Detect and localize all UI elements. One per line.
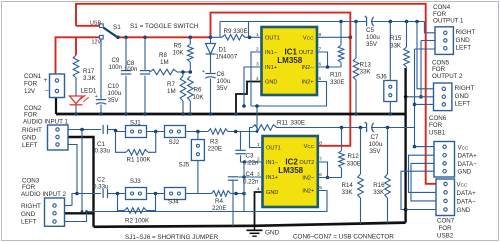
svg-text:0.22n: 0.22n <box>243 159 259 166</box>
svg-text:LEFT: LEFT <box>22 142 38 149</box>
svg-text:33K: 33K <box>390 42 402 49</box>
svg-text:0.22n: 0.22n <box>243 178 259 185</box>
svg-text:VCC: VCC <box>457 182 468 189</box>
svg-text:R11: R11 <box>277 119 288 126</box>
svg-text:R1 100K: R1 100K <box>127 157 152 164</box>
svg-text:USB2: USB2 <box>437 232 454 239</box>
svg-text:4: 4 <box>257 187 260 193</box>
svg-text:100u: 100u <box>108 90 122 97</box>
svg-text:GND: GND <box>22 135 37 142</box>
svg-text:100u: 100u <box>369 141 383 148</box>
svg-text:CON1: CON1 <box>24 73 42 80</box>
svg-text:VCC: VCC <box>458 144 469 151</box>
svg-text:8: 8 <box>319 140 322 146</box>
svg-text:LEFT: LEFT <box>455 101 471 108</box>
svg-text:R7: R7 <box>167 81 175 88</box>
svg-text:RIGHT: RIGHT <box>21 203 41 210</box>
svg-text:SJ2: SJ2 <box>169 139 180 146</box>
svg-text:FOR: FOR <box>24 81 38 88</box>
svg-text:3.3K: 3.3K <box>83 75 97 82</box>
svg-text:OUTPUT 1: OUTPUT 1 <box>433 17 464 24</box>
svg-text:1M: 1M <box>160 59 169 66</box>
svg-text:GND: GND <box>458 169 472 176</box>
svg-text:OUT1: OUT1 <box>265 36 280 42</box>
svg-text:S1 = TOGGLE SWITCH: S1 = TOGGLE SWITCH <box>130 23 199 30</box>
svg-text:OUTPUT 2: OUTPUT 2 <box>432 73 463 80</box>
svg-text:+: + <box>95 94 98 100</box>
svg-text:LM358: LM358 <box>278 166 303 175</box>
svg-text:SJ4: SJ4 <box>168 199 179 206</box>
svg-text:1M: 1M <box>167 88 176 95</box>
svg-text:DATA+: DATA+ <box>457 190 477 197</box>
svg-text:GND: GND <box>265 230 280 237</box>
svg-text:USB: USB <box>90 20 101 26</box>
svg-text:GND: GND <box>457 207 471 214</box>
svg-text:330E: 330E <box>291 119 305 126</box>
svg-text:+: + <box>202 69 205 75</box>
svg-text:SJ5: SJ5 <box>179 162 190 169</box>
svg-text:R16: R16 <box>373 182 385 189</box>
svg-text:IN2−: IN2− <box>302 65 314 71</box>
svg-text:IN1−: IN1− <box>265 50 277 56</box>
svg-text:DATA−: DATA− <box>458 161 478 168</box>
svg-text:GND: GND <box>266 190 278 196</box>
svg-text:+: + <box>364 15 367 21</box>
svg-text:R3: R3 <box>210 139 218 146</box>
svg-text:35V: 35V <box>217 85 229 92</box>
svg-text:4: 4 <box>256 76 259 82</box>
svg-text:CON6–CON7 = USB CONNECTOR: CON6–CON7 = USB CONNECTOR <box>293 233 394 240</box>
svg-text:IN2+: IN2+ <box>302 80 314 86</box>
svg-text:GND: GND <box>21 211 36 218</box>
svg-text:C7: C7 <box>371 134 379 141</box>
svg-text:IN2+: IN2+ <box>302 189 314 195</box>
svg-text:330E: 330E <box>347 160 361 167</box>
svg-text:CON7: CON7 <box>437 218 455 225</box>
svg-text:C6: C6 <box>217 71 225 78</box>
svg-text:R2 100K: R2 100K <box>125 217 150 224</box>
svg-text:SJ3: SJ3 <box>130 178 141 185</box>
svg-text:0.33u: 0.33u <box>93 183 109 190</box>
svg-text:100u: 100u <box>217 78 231 85</box>
svg-text:10K: 10K <box>173 50 185 57</box>
svg-text:SJ1: SJ1 <box>130 120 141 127</box>
svg-text:GND: GND <box>456 37 471 44</box>
svg-text:S1: S1 <box>113 24 121 31</box>
svg-text:USB1: USB1 <box>429 130 446 137</box>
svg-text:100u: 100u <box>366 34 380 41</box>
svg-text:1: 1 <box>256 32 259 38</box>
svg-text:+: + <box>44 77 48 84</box>
svg-text:R13: R13 <box>360 62 372 69</box>
svg-text:6: 6 <box>319 62 322 68</box>
svg-text:IN1+: IN1+ <box>266 175 278 181</box>
svg-text:LEFT: LEFT <box>21 219 37 226</box>
svg-text:12V: 12V <box>92 40 102 46</box>
svg-text:DATA−: DATA− <box>457 198 477 205</box>
svg-text:IC1: IC1 <box>285 47 298 56</box>
svg-text:CON6: CON6 <box>429 115 447 122</box>
svg-text:GND: GND <box>265 80 277 86</box>
svg-text:OUT1: OUT1 <box>266 146 281 152</box>
svg-text:C10: C10 <box>108 83 120 90</box>
svg-text:100n: 100n <box>124 67 137 73</box>
svg-text:C4: C4 <box>246 171 254 178</box>
svg-text:FOR: FOR <box>24 112 38 119</box>
svg-text:35V: 35V <box>108 97 120 104</box>
svg-text:33K: 33K <box>342 189 354 196</box>
svg-text:GND: GND <box>455 93 470 100</box>
svg-text:R15: R15 <box>390 35 402 42</box>
svg-text:R12: R12 <box>348 153 360 160</box>
svg-text:SJ6: SJ6 <box>376 73 387 80</box>
svg-text:1N4007: 1N4007 <box>216 54 238 61</box>
svg-text:FOR: FOR <box>439 225 453 232</box>
svg-text:220E: 220E <box>212 205 226 212</box>
svg-text:FOR: FOR <box>429 122 443 129</box>
svg-text:LEFT: LEFT <box>456 45 472 52</box>
svg-text:C9: C9 <box>112 58 120 64</box>
svg-text:IN1+: IN1+ <box>265 65 277 71</box>
svg-text:33K: 33K <box>373 189 385 196</box>
svg-text:RIGHT: RIGHT <box>22 127 42 134</box>
svg-text:35V: 35V <box>366 41 378 48</box>
svg-text:D1: D1 <box>219 47 227 54</box>
svg-text:0.33u: 0.33u <box>95 147 111 154</box>
svg-text:330E: 330E <box>330 79 344 86</box>
svg-text:12V: 12V <box>24 88 36 95</box>
svg-text:7: 7 <box>319 47 322 53</box>
svg-text:8: 8 <box>319 32 322 38</box>
svg-text:100n: 100n <box>109 65 122 71</box>
svg-text:IC2: IC2 <box>285 157 298 166</box>
svg-text:35V: 35V <box>370 148 382 155</box>
svg-text:LM358: LM358 <box>277 56 302 65</box>
svg-text:RIGHT: RIGHT <box>455 85 475 92</box>
svg-text:VCC: VCC <box>304 144 315 150</box>
svg-text:IN1−: IN1− <box>266 160 278 166</box>
svg-text:DATA+: DATA+ <box>458 153 478 160</box>
svg-text:R5: R5 <box>174 43 182 50</box>
svg-text:10K: 10K <box>193 94 205 101</box>
svg-text:R9 330E: R9 330E <box>224 28 248 35</box>
svg-text:–: – <box>45 88 49 95</box>
svg-text:220E: 220E <box>208 146 222 153</box>
svg-text:+: + <box>364 121 367 127</box>
svg-text:VCC: VCC <box>303 36 314 42</box>
svg-text:AUDIO INPUT 2: AUDIO INPUT 2 <box>21 191 66 198</box>
svg-text:R10: R10 <box>330 72 342 79</box>
svg-text:IN2−: IN2− <box>302 176 314 182</box>
svg-text:R14: R14 <box>342 182 354 189</box>
svg-text:RIGHT: RIGHT <box>456 29 476 36</box>
svg-text:R6: R6 <box>194 87 202 94</box>
svg-text:33K: 33K <box>360 69 372 76</box>
svg-text:C5: C5 <box>366 27 374 34</box>
svg-text:SJ1–SJ6 = SHORTING JUMPER: SJ1–SJ6 = SHORTING JUMPER <box>125 234 219 241</box>
